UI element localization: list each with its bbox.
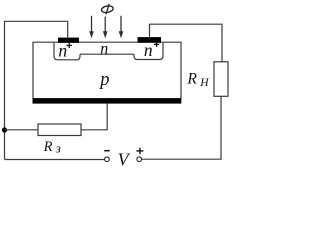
minus sign — [104, 150, 110, 152]
semiconductor body (p substrate) outline — [33, 42, 181, 98]
svg-text:з: з — [55, 140, 61, 155]
wire: bottom left to V minus terminal — [5, 159, 105, 161]
n+ region right (well outline) — [134, 43, 163, 60]
n channel layer boundary — [80, 53, 134, 55]
svg-text:p: p — [98, 70, 109, 90]
svg-text:R: R — [186, 71, 197, 88]
junction node dot — [2, 127, 7, 132]
wire: left contact up, over and down left side — [5, 21, 68, 159]
right n+ metal contact bar — [138, 37, 162, 43]
light arrow 2 — [103, 17, 108, 39]
wire: R3 to substrate contact — [81, 104, 107, 130]
p substrate bottom ohmic contact (thick bar) — [33, 98, 182, 104]
light arrow 1 — [89, 16, 94, 39]
svg-text:n: n — [100, 40, 108, 57]
resistor RH (Hall load) body — [214, 62, 228, 97]
svg-text:n: n — [58, 41, 67, 61]
svg-text:R: R — [43, 139, 53, 155]
wire: RH bottom down and left to V plus terminal — [142, 96, 221, 159]
wire: right contact up, over and down to RH — [150, 24, 223, 62]
source V minus terminal — [105, 157, 110, 162]
light flux symbol Φ — [101, 4, 114, 14]
source V plus terminal — [137, 157, 142, 162]
light arrow 3 — [119, 16, 124, 39]
svg-text:H: H — [199, 77, 209, 89]
left n+ metal contact bar — [58, 38, 79, 43]
plus sign — [136, 148, 143, 155]
wire: junction to resistor R3 — [5, 129, 39, 131]
n+ region left (well outline) — [54, 43, 80, 60]
svg-text:n: n — [144, 40, 153, 60]
resistor R3 (load) body — [38, 124, 81, 136]
